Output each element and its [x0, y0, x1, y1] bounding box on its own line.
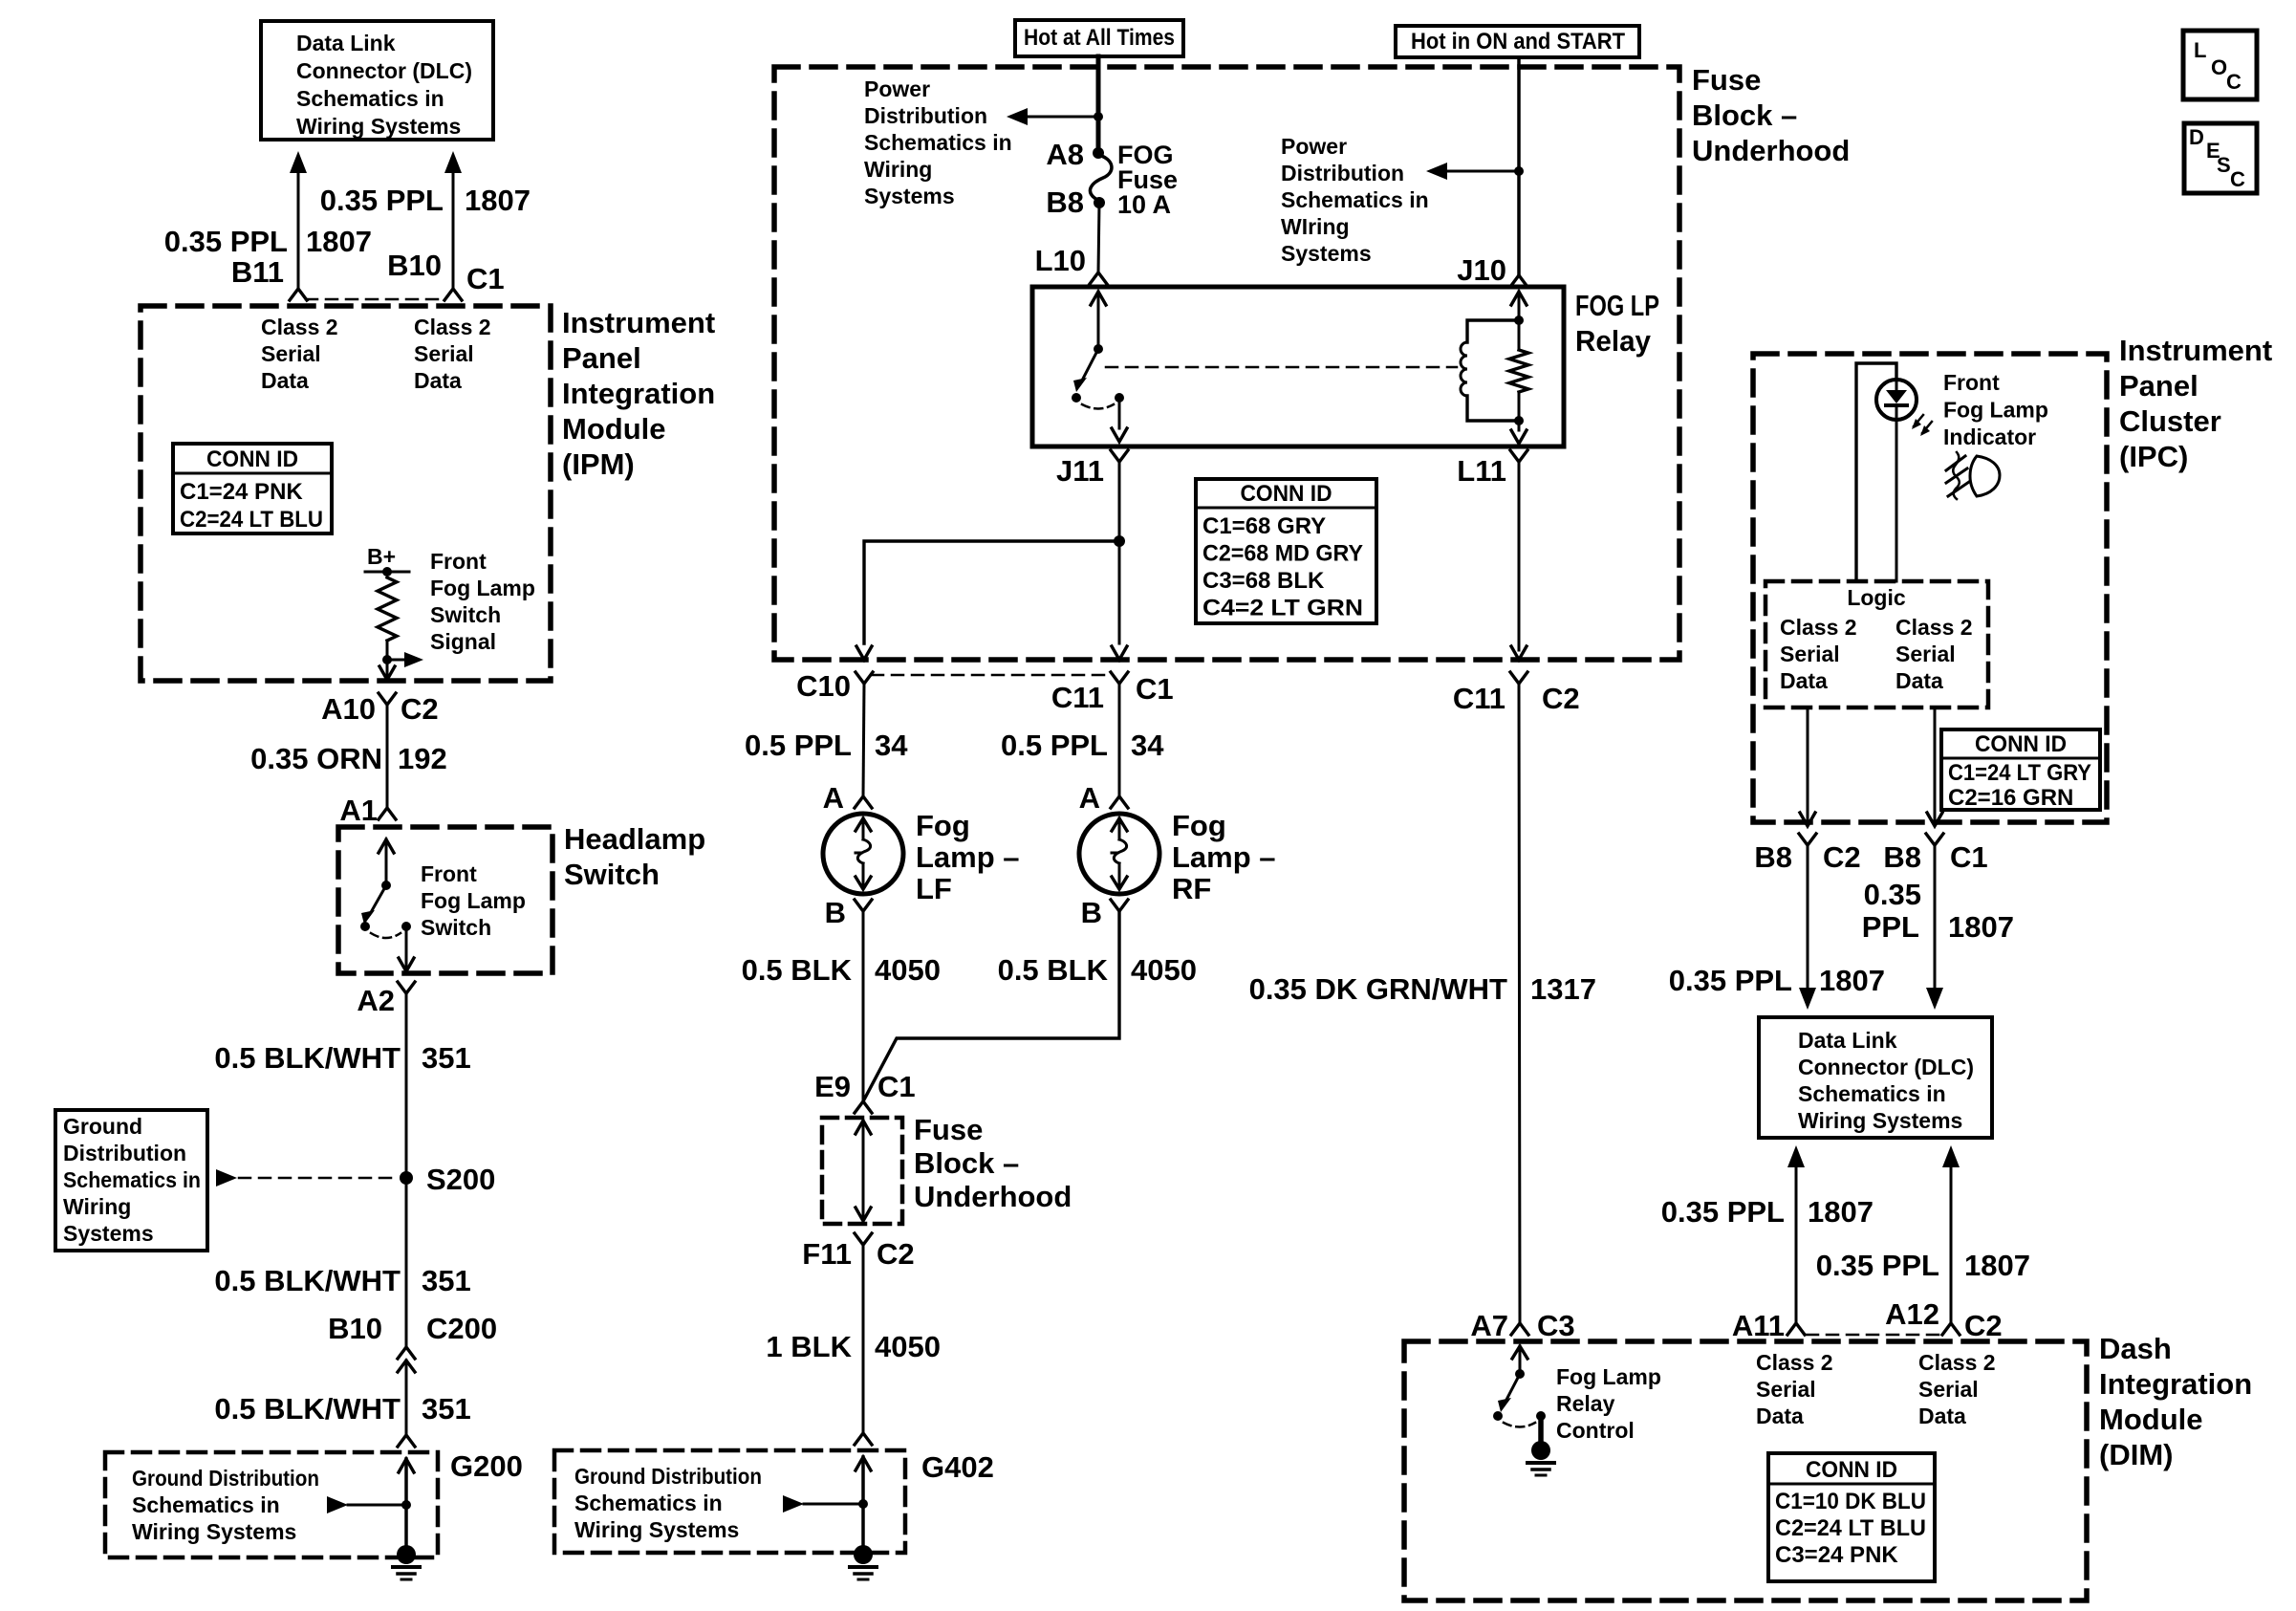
- pin A11 connector half: [1787, 1323, 1805, 1335]
- wire: 0.5 BLK 4050 from RF lamp: [863, 911, 1119, 1101]
- pin label J11: [1056, 454, 1104, 488]
- in-line connector C200 (double chevron): [398, 1347, 415, 1372]
- pin F11/C2 connector half: [855, 1233, 872, 1245]
- wire: C11/C1 exit arrow (open): [1112, 646, 1127, 660]
- relay coil windings: [1461, 342, 1467, 396]
- label: 0.35 ORN 192: [250, 742, 447, 775]
- switch travel arc (dashed): [371, 933, 401, 938]
- label: 1 BLK 4050: [766, 1330, 941, 1363]
- svg-text:C2=24 LT BLU: C2=24 LT BLU: [180, 507, 323, 533]
- pin C11/C1 connector half: [1111, 672, 1128, 684]
- svg-text:351: 351: [422, 1392, 471, 1426]
- svg-text:FOG LP: FOG LP: [1575, 289, 1659, 322]
- connector link C10-C11 (dashed): [872, 674, 1110, 677]
- svg-text:B: B: [1081, 896, 1102, 929]
- svg-text:O: O: [2211, 55, 2227, 79]
- fuse FOG 10A terminal A8: [1093, 147, 1104, 159]
- svg-text:Data Link: Data Link: [1798, 1028, 1897, 1053]
- svg-text:Distribution: Distribution: [1281, 161, 1404, 185]
- wire: IPC serial data left exit (arrow down): [1800, 708, 1815, 826]
- pin label C2 (B8): [1823, 840, 1861, 874]
- svg-text:Signal: Signal: [430, 629, 496, 654]
- pin label B8 (C1): [1883, 840, 1921, 874]
- svg-text:Wiring: Wiring: [63, 1194, 131, 1219]
- svg-text:A2: A2: [357, 984, 395, 1017]
- svg-text:4050: 4050: [875, 953, 941, 987]
- wire: 1 BLK 4050 (F11 to G402): [862, 1245, 865, 1431]
- node label G200: [450, 1449, 523, 1483]
- svg-text:1807: 1807: [465, 184, 531, 217]
- svg-text:B11: B11: [231, 255, 284, 289]
- wire: battery feed (thick) from Hot at All Times: [1096, 56, 1101, 153]
- svg-text:Fuse: Fuse: [1692, 63, 1761, 97]
- svg-text:Headlamp: Headlamp: [564, 822, 705, 856]
- logic box: Logic (dashed, inside IPC): [1765, 581, 1988, 708]
- svg-text:Schematics in: Schematics in: [132, 1492, 280, 1517]
- fuse FOG Fuse 10 A (element): [1090, 155, 1112, 201]
- svg-text:Switch: Switch: [421, 915, 491, 940]
- pin A1 connector half: [379, 808, 396, 819]
- pin label J10: [1457, 253, 1506, 287]
- svg-text:Lamp –: Lamp –: [1172, 840, 1276, 874]
- pin E9/C1 connector half: [855, 1101, 872, 1113]
- wire: through fuse block with arrows: [856, 1121, 871, 1221]
- pin C10 connector half: [856, 672, 873, 684]
- driver pivot junction: [1515, 1369, 1525, 1379]
- pin label B10 (C200): [328, 1312, 382, 1345]
- svg-text:4050: 4050: [875, 1330, 941, 1363]
- pin A10/C2 connector half: [379, 693, 396, 705]
- pin J10 connector half: [1510, 275, 1527, 287]
- svg-text:A: A: [1079, 781, 1100, 815]
- relay box: FOG LP Relay (solid): [1032, 287, 1564, 446]
- wire: coil stubs on main branch: [1518, 320, 1521, 421]
- label: Front Fog Lamp Switch: [421, 861, 526, 940]
- svg-text:B10: B10: [328, 1312, 382, 1345]
- switch moving contact: [360, 922, 370, 931]
- svg-text:PPL: PPL: [1862, 910, 1919, 944]
- driver fixed contact: [1536, 1411, 1546, 1421]
- resistor: front fog lamp switch pull-up: [378, 577, 397, 641]
- wire: L11 down to fuse block edge: [1511, 462, 1527, 660]
- svg-text:C: C: [2226, 70, 2242, 94]
- svg-text:0.5 BLK: 0.5 BLK: [742, 953, 853, 987]
- note: Power Distribution Schematics in Wiring Systems (left): [864, 76, 1012, 208]
- driver arm with arrowhead: [1498, 1374, 1520, 1412]
- svg-text:C1=10 DK BLU: C1=10 DK BLU: [1775, 1489, 1926, 1514]
- svg-text:Panel: Panel: [2119, 369, 2199, 403]
- connector label C200: [426, 1312, 497, 1345]
- lamp: Fog Lamp - LF: [823, 796, 903, 911]
- svg-text:Data Link: Data Link: [296, 31, 396, 55]
- switch: front fog lamp switch (entry arrow): [379, 839, 394, 885]
- svg-text:L: L: [2194, 38, 2206, 62]
- pin label B11: [231, 255, 284, 289]
- lamp: Fog Lamp - RF: [1079, 796, 1159, 911]
- pin label C2: [401, 692, 439, 726]
- svg-text:Connector (DLC): Connector (DLC): [296, 58, 472, 83]
- module box: Headlamp Switch, dashed: [338, 827, 552, 973]
- LED: Front Fog Lamp Indicator: [1876, 380, 1917, 420]
- wire: 0.5 PPL 34 to LF fog lamp: [863, 684, 864, 796]
- svg-text:Front: Front: [1943, 370, 2000, 395]
- svg-text:C4=2 LT GRN: C4=2 LT GRN: [1202, 596, 1363, 621]
- svg-text:Wiring Systems: Wiring Systems: [574, 1517, 739, 1542]
- switch pivot junction: [381, 881, 391, 890]
- svg-text:Data: Data: [1780, 668, 1828, 693]
- pin label E9: [814, 1070, 851, 1103]
- pin label C10: [796, 669, 851, 703]
- pin label A8: [1046, 138, 1084, 171]
- svg-text:Serial: Serial: [261, 341, 321, 366]
- junction on G402 wire: [858, 1499, 868, 1509]
- svg-text:1807: 1807: [1808, 1195, 1874, 1229]
- power tag box: Hot in ON and START: [1396, 26, 1639, 57]
- pin label A2: [357, 984, 395, 1017]
- svg-text:A8: A8: [1046, 138, 1084, 171]
- pin label A10: [321, 692, 376, 726]
- svg-text:C1: C1: [466, 262, 505, 295]
- svg-text:Connector (DLC): Connector (DLC): [1798, 1055, 1974, 1079]
- svg-text:Ground Distribution: Ground Distribution: [574, 1464, 762, 1489]
- svg-text:A11: A11: [1732, 1309, 1785, 1342]
- svg-text:F11: F11: [802, 1237, 852, 1271]
- svg-text:0.35 PPL: 0.35 PPL: [164, 225, 288, 258]
- svg-text:C200: C200: [426, 1312, 497, 1345]
- svg-text:Relay: Relay: [1575, 324, 1652, 358]
- junction on G200 wire: [401, 1500, 411, 1510]
- svg-text:0.5 BLK: 0.5 BLK: [998, 953, 1109, 987]
- pin label A7: [1470, 1309, 1508, 1342]
- svg-text:C2=68 MD GRY: C2=68 MD GRY: [1202, 541, 1363, 567]
- pin label B8: [1046, 185, 1084, 219]
- label: 0.35 PPL 1807 (left wire): [164, 225, 372, 258]
- note box: Ground Distribution Schematics in Wiring Systems (solid): [55, 1110, 207, 1251]
- pin L11 connector half: [1510, 450, 1527, 462]
- module box: Dash Integration Module (DIM), dashed: [1404, 1341, 2087, 1600]
- svg-text:Class 2: Class 2: [1918, 1350, 1996, 1375]
- wire: IPM exit down with open arrow: [379, 660, 395, 680]
- svg-text:C1=24 LT GRY: C1=24 LT GRY: [1948, 760, 2091, 786]
- ground G402: [850, 1545, 877, 1579]
- svg-text:Schematics in: Schematics in: [864, 130, 1012, 155]
- junction on ignition feed: [1514, 166, 1524, 176]
- wire: 0.35 PPL 1807 (A12 up to DLC): [1942, 1145, 1960, 1323]
- svg-text:Hot in ON and START: Hot in ON and START: [1411, 29, 1625, 54]
- svg-text:192: 192: [398, 742, 447, 775]
- svg-text:Logic: Logic: [1847, 585, 1906, 610]
- pin label A (LF): [823, 781, 844, 815]
- svg-text:0.5 PPL: 0.5 PPL: [1001, 729, 1108, 762]
- svg-text:Hot at All Times: Hot at All Times: [1024, 25, 1175, 51]
- net label: Class 2 Serial Data (right, IPC): [1895, 615, 1973, 693]
- svg-text:A7: A7: [1470, 1309, 1508, 1342]
- relay mechanical link (dashed): [1106, 366, 1457, 369]
- module label: Fuse Block - Underhood (small): [914, 1113, 1072, 1213]
- module box: Instrument Panel Cluster (IPC), dashed: [1753, 354, 2107, 822]
- relay contact travel arc (dashed): [1082, 404, 1114, 409]
- svg-text:Panel: Panel: [562, 341, 641, 375]
- svg-text:CONN ID: CONN ID: [1241, 481, 1332, 507]
- svg-text:0.5 PPL: 0.5 PPL: [745, 729, 852, 762]
- pin label C2 (A12): [1964, 1309, 2003, 1342]
- svg-text:Indicator: Indicator: [1943, 425, 2036, 449]
- svg-text:Block –: Block –: [1692, 98, 1797, 132]
- icon: front fog lamp symbol: [1946, 452, 2000, 499]
- svg-text:LF: LF: [916, 872, 952, 905]
- label: 0.5 PPL 34 (RF): [1001, 729, 1164, 762]
- svg-text:Schematics in: Schematics in: [1798, 1081, 1946, 1106]
- pin label A12: [1885, 1297, 1939, 1331]
- wire: 0.5 BLK/WHT 351 (C200 to G200): [405, 1361, 408, 1435]
- svg-text:C1=68 GRY: C1=68 GRY: [1202, 513, 1326, 539]
- pin label C1 (E9): [877, 1070, 916, 1103]
- svg-text:Serial: Serial: [1895, 642, 1956, 666]
- svg-text:Module: Module: [562, 412, 666, 446]
- tie arrow into G402 wire: [783, 1495, 863, 1513]
- pin label C3: [1537, 1309, 1575, 1342]
- junction: fog lamp feed split: [1114, 535, 1125, 547]
- svg-text:B8: B8: [1046, 185, 1084, 219]
- ground G200: [393, 1545, 420, 1579]
- pin label C2 (F11): [877, 1237, 915, 1271]
- pin B8/C2 connector half: [1799, 834, 1816, 845]
- svg-text:34: 34: [875, 729, 908, 762]
- ground: DIM internal: [1527, 1441, 1554, 1475]
- wire: 0.35 PPL 1807 (B8/C1 to DLC): [1926, 845, 1943, 1010]
- tag box: LOC: [2183, 31, 2257, 99]
- relay coil resistor: [1509, 350, 1528, 392]
- net label: Class 2 Serial Data (left, inside IPM): [261, 315, 338, 393]
- svg-text:Wiring Systems: Wiring Systems: [1798, 1108, 1962, 1133]
- module label: Fuse Block - Underhood: [1692, 63, 1850, 167]
- svg-text:A10: A10: [321, 692, 376, 726]
- svg-text:CONN ID: CONN ID: [206, 446, 298, 472]
- label: Front Fog Lamp Indicator: [1943, 370, 2048, 449]
- wire: resistor to signal junction: [386, 641, 389, 660]
- svg-text:Class 2: Class 2: [1756, 1350, 1833, 1375]
- svg-text:C3=24 PNK: C3=24 PNK: [1775, 1542, 1898, 1568]
- pin label C1 (left wire): [1136, 672, 1174, 706]
- svg-text:Data: Data: [1756, 1404, 1804, 1428]
- wire: G402 entry arrow down to ground: [856, 1457, 871, 1545]
- svg-text:Switch: Switch: [564, 858, 660, 891]
- pin J11 connector half: [1111, 450, 1128, 462]
- svg-text:1317: 1317: [1530, 972, 1596, 1006]
- node B+ label: [367, 544, 396, 569]
- wire: 0.5 BLK/WHT 351 (A2 to S200): [405, 993, 408, 1178]
- switch arm with arrowhead: [361, 885, 386, 925]
- pass-through box: Fuse Block - Underhood (dashed small): [822, 1118, 902, 1224]
- wire: 0.35 DK GRN/WHT 1317 (C11/C2 to A7): [1519, 684, 1520, 1323]
- module label: Instrument Panel Integration Module (IPM): [562, 306, 715, 481]
- svg-text:C2: C2: [1542, 682, 1580, 715]
- svg-text:L10: L10: [1035, 244, 1086, 277]
- label: 0.5 BLK 4050 (RF): [998, 953, 1197, 987]
- relay switch entry arrow: [1091, 292, 1106, 349]
- junction: signal node: [382, 655, 392, 664]
- svg-text:Data: Data: [414, 368, 462, 393]
- label: 0.35 DK GRN/WHT 1317: [1249, 972, 1596, 1006]
- svg-text:Front: Front: [430, 549, 487, 574]
- wire: relay coil exit arrow (open): [1511, 421, 1527, 444]
- svg-text:0.35 PPL: 0.35 PPL: [320, 184, 444, 217]
- svg-text:Data: Data: [1895, 668, 1943, 693]
- component label: Fog Lamp - RF: [1172, 809, 1276, 905]
- net label: Class 2 Serial Data (right, inside IPM): [414, 315, 491, 393]
- pin A12 connector half: [1942, 1323, 1960, 1335]
- relay moving contact: [1072, 393, 1081, 403]
- svg-text:Power: Power: [1281, 134, 1347, 159]
- svg-text:Ground Distribution: Ground Distribution: [132, 1466, 319, 1491]
- svg-text:Data: Data: [261, 368, 309, 393]
- tag box: DESC: [2184, 123, 2257, 193]
- wire: fuse B8 to L10: [1098, 203, 1099, 272]
- svg-text:Integration: Integration: [2099, 1367, 2252, 1401]
- relay coil bracket wiring: [1467, 320, 1519, 421]
- pin label B8 (C2): [1754, 840, 1792, 874]
- pin A7 connector half: [1511, 1323, 1528, 1335]
- relay switch pivot: [1094, 344, 1103, 354]
- note box: Ground Distribution Schematics in Wiring Systems (dashed, G402): [554, 1450, 905, 1553]
- pin B11 connector half: [290, 289, 307, 300]
- wire: 0.35 PPL 1807 (A11 up to DLC): [1787, 1145, 1805, 1323]
- pin label C11 (right wire): [1453, 682, 1505, 715]
- svg-text:Class 2: Class 2: [261, 315, 338, 339]
- svg-text:1807: 1807: [306, 225, 372, 258]
- signal arrow (Front Fog Lamp Switch Signal): [387, 652, 423, 667]
- pin label A1: [339, 794, 378, 827]
- svg-text:Ground: Ground: [63, 1114, 142, 1139]
- svg-text:C1=24 PNK: C1=24 PNK: [180, 479, 303, 505]
- label: 0.5 PPL 34 (LF): [745, 729, 908, 762]
- svg-text:B: B: [825, 896, 846, 929]
- fuse terminal B8: [1094, 197, 1105, 208]
- module box: Instrument Panel Integration Module (IPM), dashed: [141, 306, 551, 681]
- svg-text:A1: A1: [339, 794, 378, 827]
- svg-text:A12: A12: [1885, 1297, 1939, 1331]
- pin C11/C2 connector half: [1510, 672, 1527, 684]
- LED emission arrows: [1912, 415, 1932, 436]
- svg-text:Integration: Integration: [562, 377, 715, 410]
- svg-text:Power: Power: [864, 76, 930, 101]
- wire: LED indicator loop: [1856, 363, 1896, 581]
- component label: Fog Lamp - LF: [916, 809, 1020, 905]
- relay fixed contact: [1115, 393, 1124, 403]
- pin label A (RF): [1079, 781, 1100, 815]
- svg-text:Serial: Serial: [1780, 642, 1840, 666]
- svg-text:Lamp –: Lamp –: [916, 840, 1020, 874]
- CONN ID table (IPM): C1=24 PNK / C2=24 LT BLU: [173, 444, 332, 533]
- label: 0.5 BLK/WHT 351 (upper): [214, 1041, 470, 1075]
- svg-text:C3: C3: [1537, 1309, 1575, 1342]
- svg-text:0.35 ORN: 0.35 ORN: [250, 742, 382, 775]
- svg-text:Serial: Serial: [414, 341, 474, 366]
- svg-text:0.35 DK GRN/WHT: 0.35 DK GRN/WHT: [1249, 972, 1507, 1006]
- junction: coil bottom: [1514, 416, 1524, 425]
- svg-text:G200: G200: [450, 1449, 523, 1483]
- svg-text:CONN ID: CONN ID: [1806, 1457, 1897, 1483]
- pin L10 connector half: [1090, 272, 1107, 284]
- svg-text:C2: C2: [401, 692, 439, 726]
- svg-text:C1: C1: [877, 1070, 916, 1103]
- module label: Dash Integration Module (DIM): [2099, 1332, 2252, 1471]
- connector link B11-B10 (same connector, dashed): [306, 298, 445, 301]
- svg-text:C2: C2: [1964, 1309, 2003, 1342]
- label: 0.35 PPL 1807 (right wire): [320, 184, 531, 217]
- svg-text:10 A: 10 A: [1117, 190, 1171, 219]
- pin label C2 (right wire): [1542, 682, 1580, 715]
- label: 0.35 PPL 1807 (B8/C1, stacked): [1862, 878, 2014, 944]
- svg-text:Serial: Serial: [1756, 1377, 1816, 1402]
- wire: IPC serial data right exit (arrow down): [1927, 708, 1942, 826]
- wire: J11 down to C11/C1 with branch junction: [1118, 462, 1121, 643]
- svg-text:Fuse: Fuse: [914, 1113, 983, 1146]
- driver moving contact: [1493, 1411, 1503, 1421]
- label: Front Fog Lamp Switch Signal: [430, 549, 535, 654]
- svg-text:Switch: Switch: [430, 602, 501, 627]
- svg-text:C1: C1: [1950, 840, 1988, 874]
- tie arrow to Power Distribution (left): [1007, 108, 1098, 125]
- svg-text:Fog: Fog: [916, 809, 970, 842]
- svg-text:B8: B8: [1883, 840, 1921, 874]
- junction on battery feed: [1094, 112, 1103, 121]
- svg-text:Front: Front: [421, 861, 477, 886]
- wire: Class 2 serial data B11 to DLC (0.35 PPL 1807): [290, 151, 307, 289]
- svg-text:C11: C11: [1051, 681, 1104, 714]
- label: 0.35 PPL 1807 (A12): [1816, 1249, 2030, 1282]
- pin B10/C1 connector half: [444, 289, 462, 300]
- svg-text:Fog: Fog: [1172, 809, 1226, 842]
- svg-text:C2=16 GRN: C2=16 GRN: [1948, 785, 2073, 811]
- connector half at G200 box: [398, 1435, 415, 1447]
- label: Logic: [1847, 585, 1906, 610]
- svg-text:Control: Control: [1556, 1418, 1635, 1443]
- svg-text:1807: 1807: [1964, 1249, 2030, 1282]
- svg-text:0.5 BLK/WHT: 0.5 BLK/WHT: [214, 1264, 401, 1297]
- svg-text:C11: C11: [1453, 682, 1505, 715]
- svg-text:0.5 BLK/WHT: 0.5 BLK/WHT: [214, 1392, 401, 1426]
- svg-text:E9: E9: [814, 1070, 851, 1103]
- svg-text:Schematics in: Schematics in: [296, 86, 444, 111]
- svg-text:C2: C2: [1823, 840, 1861, 874]
- svg-text:(IPC): (IPC): [2119, 440, 2188, 473]
- svg-text:Data: Data: [1918, 1404, 1966, 1428]
- svg-text:L11: L11: [1457, 454, 1506, 488]
- svg-text:Block –: Block –: [914, 1146, 1019, 1180]
- CONN ID table (Fuse Block): C1..C4: [1196, 479, 1376, 623]
- node label S200: [426, 1163, 495, 1196]
- svg-text:J11: J11: [1056, 454, 1104, 488]
- svg-text:Instrument: Instrument: [562, 306, 715, 339]
- svg-text:Class 2: Class 2: [1780, 615, 1857, 640]
- svg-text:D: D: [2189, 125, 2204, 149]
- CONN ID table (IPC): C1=24 LT GRY / C2=16 GRN: [1941, 729, 2100, 811]
- label: Fog Lamp Relay Control: [1556, 1364, 1661, 1443]
- net label: Class 2 Serial Data (right, DIM): [1918, 1350, 1996, 1428]
- driver travel arc (dashed): [1504, 1423, 1535, 1427]
- connector link A11-A12 (dashed): [1807, 1334, 1941, 1337]
- svg-text:Schematics in: Schematics in: [63, 1167, 201, 1192]
- pin B8/C1 connector half: [1926, 834, 1943, 845]
- relay switch arm with arrowhead: [1073, 349, 1098, 392]
- wire: 0.35 PPL 1807 (B8/C2 to DLC): [1799, 845, 1816, 1010]
- wire: contact to internal ground: [1538, 1416, 1544, 1442]
- svg-text:1 BLK: 1 BLK: [766, 1330, 852, 1363]
- component label: FOG LP Relay: [1575, 289, 1659, 358]
- svg-text:Cluster: Cluster: [2119, 404, 2221, 438]
- svg-text:Distribution: Distribution: [864, 103, 987, 128]
